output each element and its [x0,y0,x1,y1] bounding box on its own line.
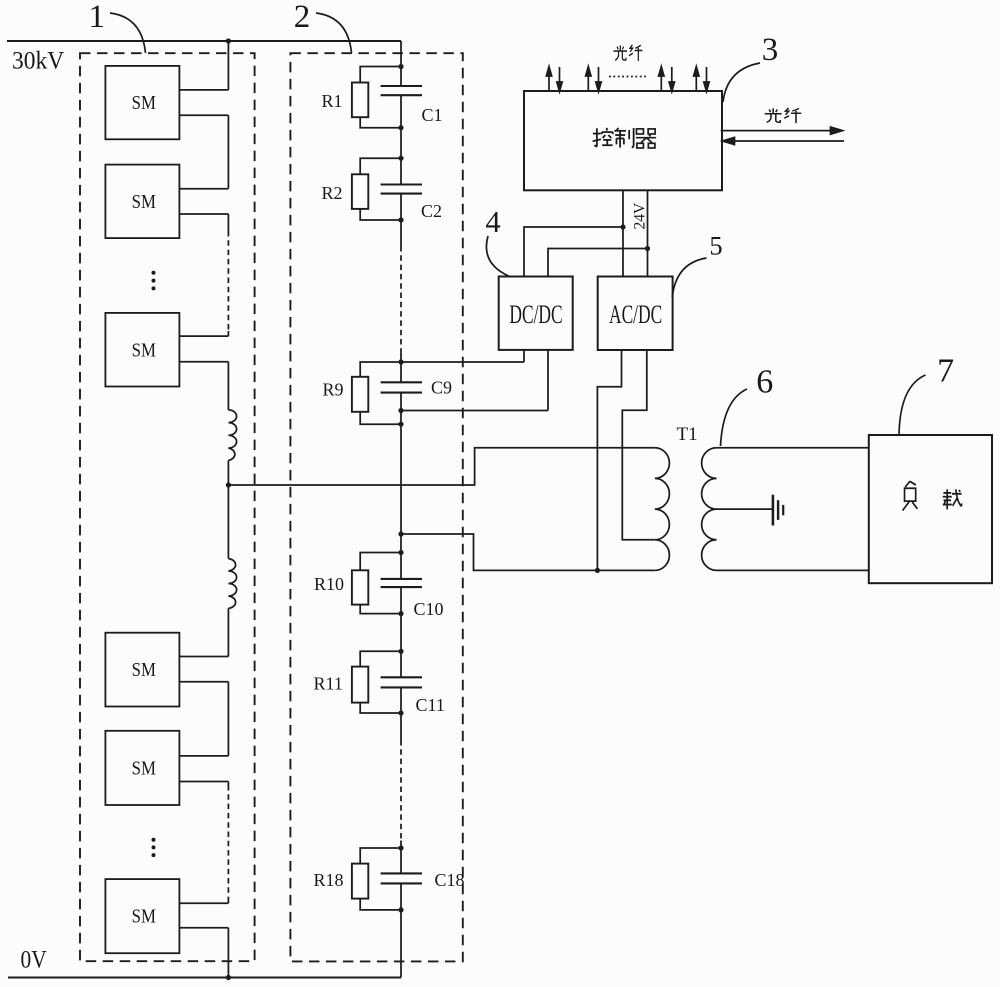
leader curve for label 3 [723,63,760,102]
capacitor C2 [381,183,422,185]
svg-text:0V: 0V [21,946,47,974]
wire: divider bus continuation dashed C11-R18 [400,740,402,841]
ground symbol [773,495,783,526]
node: C10 top [398,550,403,555]
wire: chain continuation dashed SM2-SM3 [227,231,229,331]
svg-text:SM: SM [132,659,156,681]
node: AC/DC pin on primary bottom wire [595,568,600,573]
wire: AC/DC right pin to primary tap [622,350,655,540]
node: C18 bottom [398,907,403,912]
svg-text:4: 4 [485,205,500,239]
svg-text:C10: C10 [414,599,444,619]
svg-text:R10: R10 [314,574,344,594]
svg-text:SM: SM [132,92,156,114]
svg-text:6: 6 [756,364,773,401]
svg-text:2: 2 [294,0,311,35]
load box (负载) [869,435,992,583]
wire: inductor L2 to SM4 [227,608,229,656]
wire: AC/DC left pin to primary bottom [597,350,621,570]
node: C9 bottom tap [398,408,403,413]
wire: SM3 upper stub [179,335,228,337]
node: C11 bottom [398,710,403,715]
submodule SM5 [105,731,179,805]
capacitor C10 [381,578,422,580]
node: 24V tap left [620,224,625,229]
wire: SM1 upper stub [179,89,228,91]
wire: 24V tap to DC/DC right input [548,249,648,277]
leader curve for label 4 [486,236,508,276]
inductor L1 (arm reactor upper) [228,410,236,461]
wire: chain SM6 to 0V rail [227,928,229,978]
node: SM chain on 30kV rail [226,38,231,43]
label 负载 [903,481,962,511]
svg-text:1: 1 [89,0,106,35]
capacitor C11 [381,676,422,678]
wire: secondary top to load [717,447,869,449]
label 光纤 (top) [614,45,643,61]
wire: SM5 upper stub [179,755,228,757]
submodule SM2 [105,165,179,239]
dotted ellipsis line between fiber arrow groups [609,76,648,78]
wire: DC/DC left pin to C9 top [523,350,525,362]
svg-text:T1: T1 [677,424,698,445]
ellipsis dots between SM2 and SM3 [152,271,156,291]
svg-text:AC/DC: AC/DC [609,299,662,328]
wire: SM1 lower stub [179,114,228,116]
node: divider tap to primary [398,531,403,536]
leader curve for label 5 [672,258,706,297]
label 控制器 [593,128,656,148]
transformer T1 primary winding [655,448,670,571]
wire: divider bus C10 to C11 [400,587,402,677]
wire: divider bus into R9 section [400,352,402,382]
svg-text:R2: R2 [322,183,343,203]
leader curve for label 1 [110,13,146,53]
node: R9 bottom [398,422,403,427]
svg-text:C1: C1 [422,105,443,125]
svg-text:DC/DC: DC/DC [509,299,562,328]
dashed enclosure box 1 (SM valve arm) [80,53,255,961]
wire: chain SM1 to SM2 [227,115,229,189]
svg-text:7: 7 [937,353,954,390]
submodule SM4 [105,633,179,707]
wire: chain rail to SM1 [227,41,229,90]
resistor R1 [360,67,401,83]
wire: divider tap to transformer primary bottom [401,534,655,570]
svg-text:R11: R11 [314,674,343,694]
svg-text:SM: SM [132,191,156,213]
node: arm mid-point [226,482,231,487]
leader curve for label 2 [316,13,352,53]
node: C11 top [398,649,403,654]
submodule SM3 [105,313,179,387]
svg-text:R18: R18 [314,870,344,890]
wire: SM6 upper stub [179,902,228,904]
wire: SM3 lower stub [179,361,228,363]
leader curve for label 6 [721,389,748,446]
wire: SM2 lower stub [179,213,228,215]
wire: SM4 upper stub [179,656,228,658]
svg-text:3: 3 [762,32,779,68]
wire: inductor L1 to mid node [227,460,229,485]
svg-text:C2: C2 [421,201,442,221]
wire: 24V tap to DC/DC left input [524,227,623,277]
resistor R9 [360,362,401,377]
wire: controller left pin down to AC/DC [622,190,624,276]
fiber arrow in (from right) [723,137,845,144]
resistor R10 [360,553,401,571]
node: SM chain on 0V rail [226,975,231,980]
node: C2 top [398,156,403,161]
node: C18 top [398,845,403,850]
fiber arrows above controller [546,67,709,92]
wire: divider bus C9 to C10 [400,393,402,579]
wire: secondary centre tap to ground [717,508,773,510]
AC/DC converter U5 [598,277,673,351]
node: 24V tap right [645,246,650,251]
node: C2 bottom [398,217,403,222]
node 30kV rail / wire: top supply rail [7,40,401,42]
wire: mid node to inductor L2 [227,485,229,559]
submodule SM6 [105,879,179,953]
wire: divider bus rail to C1 [400,41,402,86]
svg-text:R9: R9 [323,380,344,400]
wire: SM4 lower stub [179,681,228,683]
node: C1 top [398,64,403,69]
wire: divider bus C1 to C2 [400,95,402,184]
svg-text:C9: C9 [431,378,452,398]
wire: C9 bottom node to DC/DC [401,410,548,412]
label 光纤 (right) [765,108,801,123]
svg-text:R1: R1 [322,91,343,111]
svg-text:SM: SM [132,339,156,361]
svg-text:5: 5 [709,231,722,261]
wire: divider bus continuation dashed C2-R9 [400,246,402,352]
wire: divider bus into R18 [400,841,402,874]
wire: controller right pin down to AC/DC [647,190,649,276]
dashed enclosure box 2 (RC voltage divider) [290,53,462,961]
wire: divider bus below C2 [400,194,402,246]
controller box U3 [524,91,722,190]
node: C10 bottom [398,611,403,616]
wire: SM2 upper stub [179,188,228,190]
capacitor C18 [381,872,422,874]
capacitor C1 [381,85,422,87]
svg-text:30kV: 30kV [12,47,64,75]
wire: chain SM2 down (solid part) [227,214,229,231]
wire: chain SM5 down dashed to SM6 [227,782,229,786]
leader curve for label 7 [899,375,926,435]
wire: secondary bottom to load [717,569,869,571]
wire: chain SM4 to SM5 [227,682,229,756]
wire: divider bus below C11 [400,687,402,740]
wire: SM5 lower stub [179,781,228,783]
svg-text:24V: 24V [632,202,649,230]
DC/DC converter U4 [499,277,573,350]
svg-text:SM: SM [132,905,156,927]
wire: chain into SM3 [227,331,229,336]
fiber arrow out (to right) [721,127,843,134]
wire: chain SM3 to inductor L1 [227,362,229,410]
wire: arm mid-node to transformer primary top [228,448,654,485]
ellipsis dots between SM5 and SM6 [152,838,156,857]
wire: DC/DC right pin down [547,350,549,411]
transformer T1 secondary winding [702,448,717,571]
submodule SM1 [105,66,179,139]
svg-text:C18: C18 [435,870,465,890]
node 0V rail / wire: bottom return rail [8,976,401,978]
node: C9 top [398,359,403,364]
svg-text:C11: C11 [416,695,445,715]
wire: divider bus C18 to 0V rail [400,883,402,977]
capacitor C9 [381,381,422,383]
svg-text:SM: SM [132,757,156,779]
inductor L2 (arm reactor lower) [228,559,236,609]
node: C1 bottom [398,125,403,130]
wire: SM6 lower stub [179,927,228,929]
resistor R2 [360,158,401,174]
wire: C9 top node to DC/DC [401,361,524,363]
resistor R11 [360,651,401,666]
resistor R18 [360,848,401,864]
